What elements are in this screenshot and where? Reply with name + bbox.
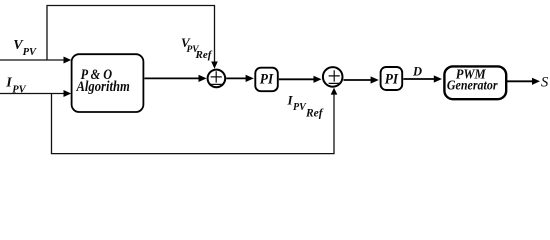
svg-text:Generator: Generator	[447, 78, 498, 93]
svg-text:±: ±	[210, 65, 223, 91]
svg-text:D: D	[412, 64, 422, 78]
svg-text:PI: PI	[385, 72, 399, 88]
svg-text:±: ±	[328, 64, 341, 90]
svg-text:PV: PV	[23, 47, 37, 58]
svg-text:Ref: Ref	[195, 49, 213, 61]
svg-text:S: S	[541, 74, 549, 90]
svg-text:PV: PV	[293, 102, 307, 113]
svg-text:PI: PI	[260, 72, 274, 88]
svg-text:Ref: Ref	[305, 108, 324, 120]
svg-text:PV: PV	[12, 85, 26, 96]
svg-text:Algorithm: Algorithm	[76, 79, 130, 95]
